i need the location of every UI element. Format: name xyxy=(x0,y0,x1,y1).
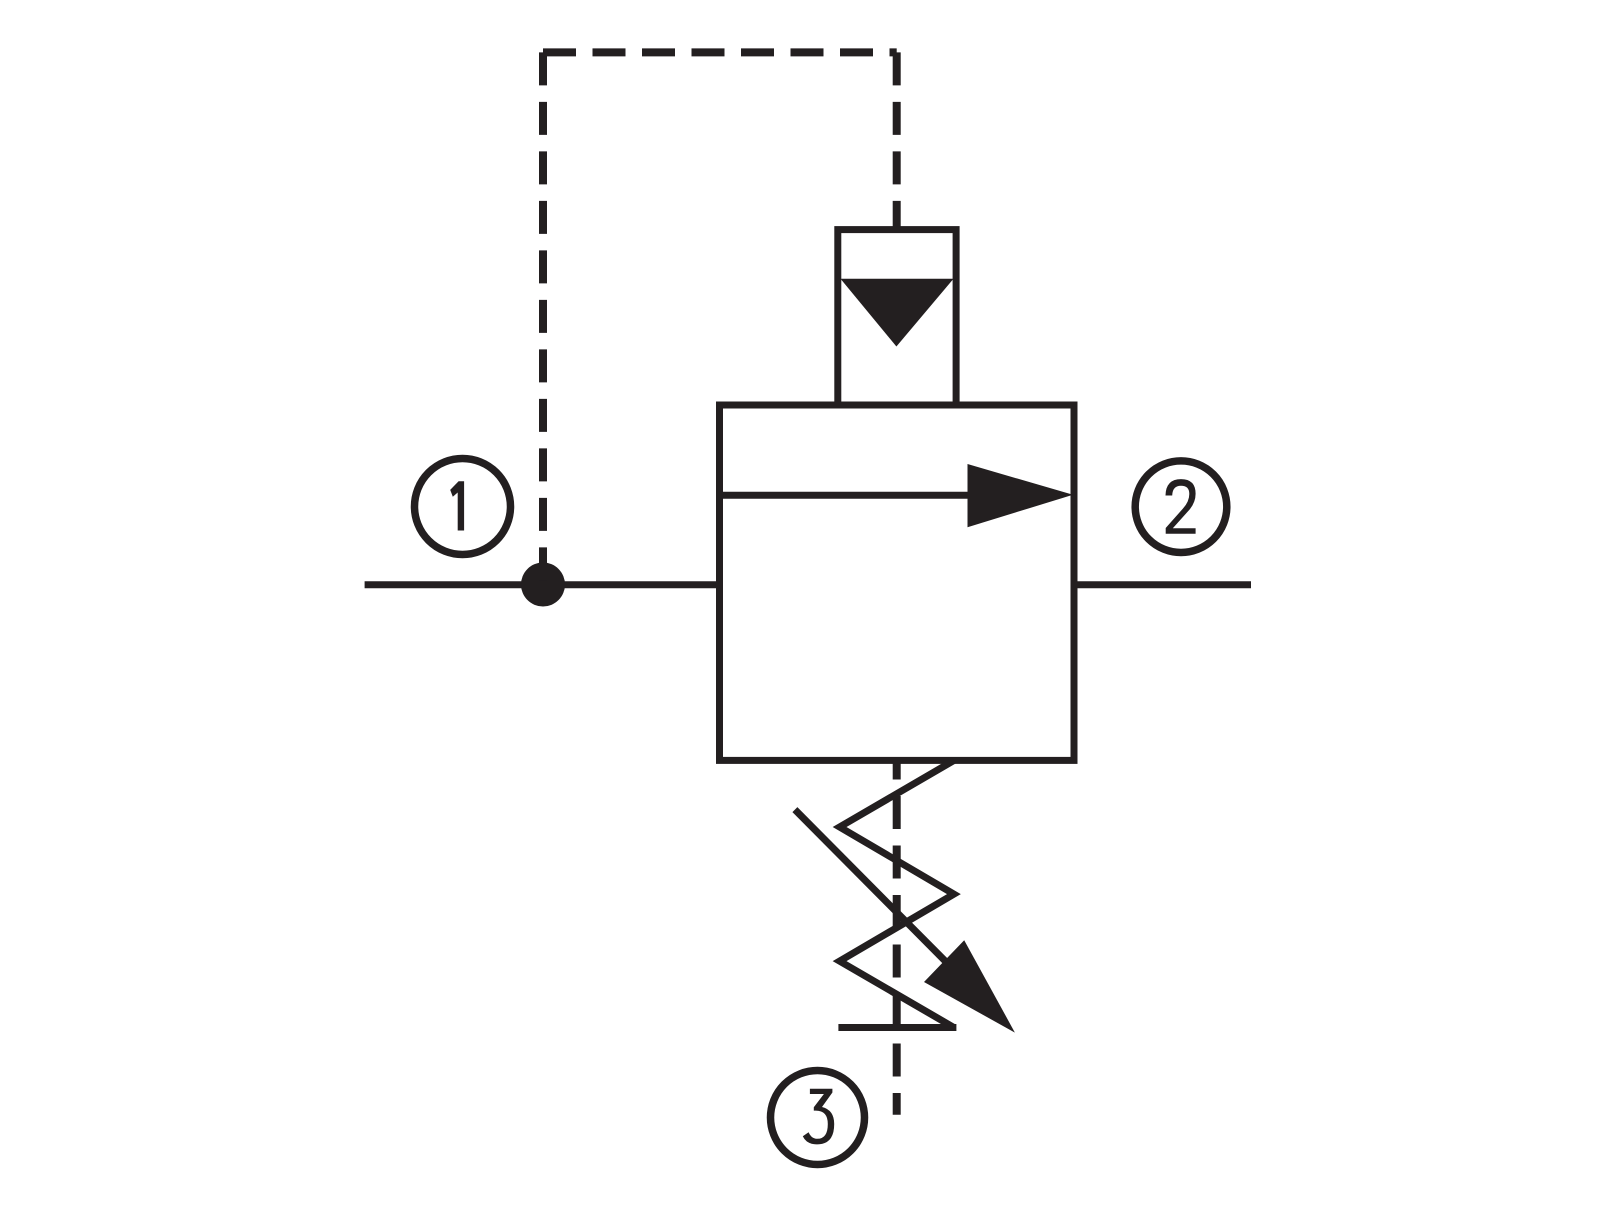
wire: right port line from valve body to port 2 xyxy=(1071,581,1251,588)
flow arrow shaft inside valve body xyxy=(720,492,976,499)
spring seat: bottom bar xyxy=(838,1024,956,1031)
wire: dashed drain line below valve body xyxy=(893,761,901,1115)
port 3 circle xyxy=(771,1071,865,1165)
valve body: main square envelope xyxy=(720,405,1075,760)
pilot poppet: filled down triangle xyxy=(841,279,954,347)
wire: left port line from port 1 to valve body xyxy=(365,581,723,588)
port 1 circle xyxy=(415,459,511,555)
adjustment arrow head xyxy=(924,940,1015,1032)
spring: zigzag below valve body xyxy=(840,761,954,1028)
wire: dashed pilot line vertical down to pilot cap xyxy=(893,52,901,228)
node: junction dot on port-1 line xyxy=(521,563,565,607)
port 1 label digit xyxy=(450,481,464,530)
wire: dashed pilot line vertical from junction up xyxy=(539,52,547,584)
pilot cap box on top of valve xyxy=(838,230,956,405)
port 3 label digit xyxy=(803,1089,834,1145)
adjustment arrow shaft across spring xyxy=(795,810,950,966)
port 2 circle xyxy=(1135,461,1227,553)
flow arrow head xyxy=(968,464,1074,527)
wire: dashed pilot line horizontal top run xyxy=(543,48,897,56)
port 2 label digit xyxy=(1166,479,1196,534)
